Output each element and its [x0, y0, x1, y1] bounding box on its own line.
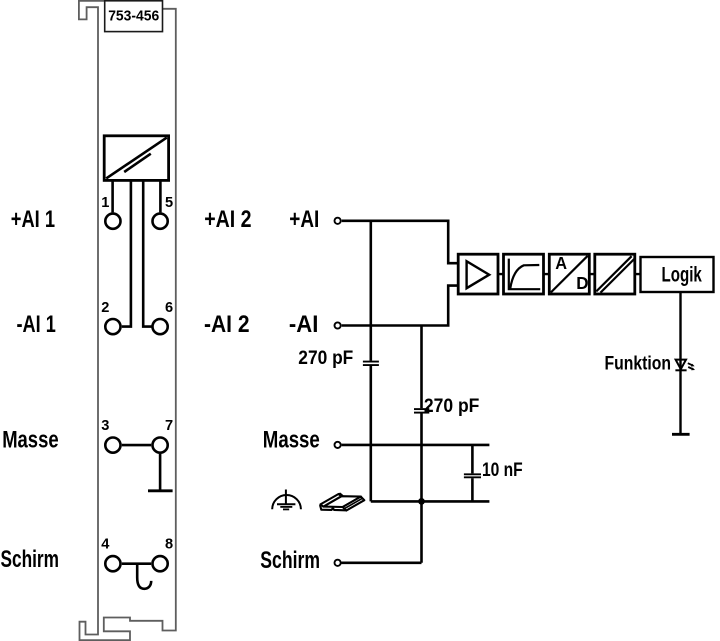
svg-text:3: 3	[101, 418, 109, 434]
svg-text:7: 7	[165, 418, 173, 434]
svg-text:Schirm: Schirm	[260, 547, 320, 574]
svg-text:10 nF: 10 nF	[482, 460, 523, 481]
svg-text:Masse: Masse	[263, 426, 320, 453]
svg-text:5: 5	[165, 195, 173, 211]
svg-text:-AI 2: -AI 2	[204, 311, 250, 338]
svg-text:Logik: Logik	[662, 264, 703, 287]
svg-text:4: 4	[101, 536, 110, 552]
svg-text:753-456: 753-456	[108, 9, 159, 25]
svg-text:8: 8	[165, 536, 173, 552]
svg-text:+AI: +AI	[289, 206, 319, 233]
svg-text:270 pF: 270 pF	[424, 396, 480, 417]
svg-text:-AI 1: -AI 1	[17, 311, 56, 338]
svg-text:+AI 1: +AI 1	[11, 206, 55, 233]
svg-text:D: D	[576, 273, 588, 293]
svg-text:Schirm: Schirm	[1, 546, 60, 573]
svg-text:2: 2	[101, 300, 109, 316]
svg-text:Funktion: Funktion	[605, 353, 672, 374]
svg-text:A: A	[555, 253, 567, 273]
svg-text:6: 6	[165, 300, 173, 316]
svg-text:270 pF: 270 pF	[298, 348, 353, 369]
svg-text:Masse: Masse	[2, 426, 58, 453]
svg-text:+AI 2: +AI 2	[204, 206, 251, 233]
svg-text:-AI: -AI	[289, 311, 319, 338]
svg-text:1: 1	[101, 195, 109, 211]
